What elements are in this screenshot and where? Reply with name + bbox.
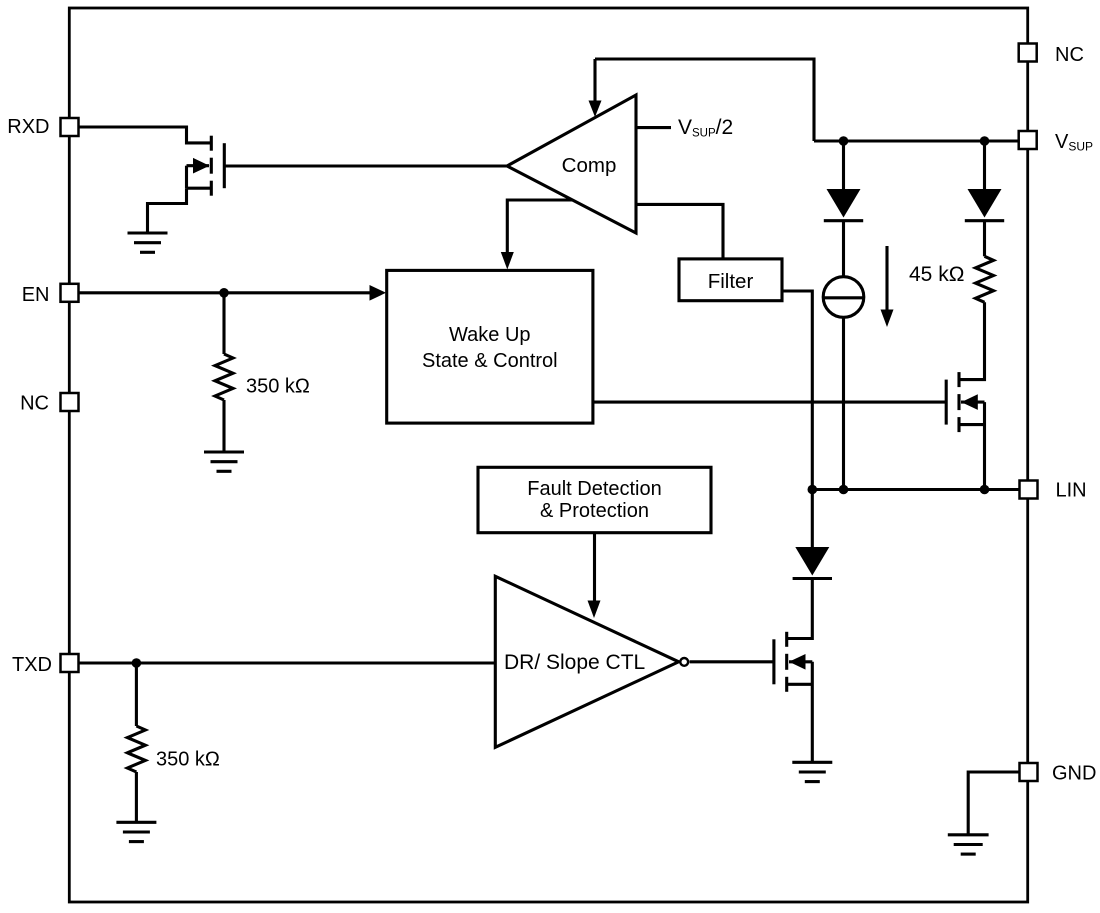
pin NC right (1019, 44, 1037, 62)
wire arrow into comparator input (593, 59, 596, 101)
pin TXD (61, 654, 79, 672)
transistor M2 (45k switch NMOS) (946, 372, 984, 432)
diode D1 (824, 189, 863, 221)
svg-text:350 kΩ: 350 kΩ (156, 749, 220, 771)
pin LIN (1020, 481, 1038, 499)
block Fault Detection & Protection (478, 467, 711, 532)
pin EN (61, 284, 79, 302)
pin GND (1020, 763, 1038, 781)
inversion bubble (680, 658, 688, 666)
pin NC left (61, 393, 79, 411)
junction on VSUP rail (839, 136, 849, 146)
wire VSUP rail (814, 139, 1020, 142)
wire comparator feedback from VSUP rail (595, 59, 814, 141)
wire D3 to M3 drain (787, 579, 813, 639)
wire LIN rail (812, 488, 1019, 491)
svg-text:State & Control: State & Control (422, 350, 558, 372)
svg-text:Wake Up: Wake Up (449, 324, 531, 346)
junction TXD node (132, 658, 142, 668)
wire comparator lower output to Wake Up block (507, 200, 572, 252)
svg-text:GND: GND (1052, 763, 1096, 785)
wire R3 to ground (135, 772, 138, 822)
wire EN to Wake Up block (79, 291, 371, 294)
svg-text:DR/ Slope CTL: DR/ Slope CTL (504, 651, 645, 674)
svg-text:LIN: LIN (1056, 480, 1087, 502)
svg-text:Filter: Filter (708, 270, 754, 293)
junction on LIN rail (839, 485, 849, 495)
resistor R45 45k (976, 256, 994, 302)
svg-text:NC: NC (20, 393, 49, 415)
svg-text:TXD: TXD (12, 654, 52, 676)
op-amp U1 Comp (507, 95, 636, 233)
wire driver output to M3 gate (690, 660, 774, 663)
wire M3 source to ground (811, 662, 814, 763)
diode D2 (965, 189, 1004, 221)
wire VSUP to diode D2 (983, 141, 986, 189)
wire VSUP to diode D1 (842, 141, 845, 189)
svg-text:VSUP: VSUP (1055, 131, 1093, 154)
wire Filter to LIN node (782, 291, 812, 490)
block Wake Up State & Control (387, 270, 593, 423)
junction on LIN rail (980, 485, 990, 495)
pin RXD (61, 118, 79, 136)
buffer U2 DR/Slope CTL (495, 576, 678, 747)
wire D1 to current source (842, 221, 845, 277)
wire VSUP/2 reference stub (636, 126, 671, 129)
wire D2 to resistor R45 (983, 221, 986, 257)
resistor R3 350k (127, 726, 145, 772)
diode D3 (793, 547, 832, 579)
svg-text:& Protection: & Protection (540, 500, 649, 522)
transistor M3 (LIN output NMOS) (774, 632, 812, 692)
svg-text:EN: EN (22, 284, 50, 306)
ground G3 (792, 762, 832, 781)
svg-text:Comp: Comp (562, 154, 617, 177)
junction EN node (219, 288, 229, 298)
svg-text:RXD: RXD (7, 116, 49, 138)
pin VSUP (1019, 131, 1037, 149)
ground G2 (204, 452, 244, 471)
transistor M1 (RXD pull-down NMOS) (187, 136, 225, 196)
wire M2 source to LIN rail (983, 402, 986, 489)
wire comparator output to M1 gate (224, 164, 507, 167)
wire TXD node to R3 (135, 663, 138, 726)
wire EN node to R2 (222, 293, 225, 354)
resistor R2 350k (215, 354, 233, 400)
wire RXD pin to M1 drain (79, 127, 212, 143)
ground G1 (128, 233, 168, 252)
svg-text:Fault Detection: Fault Detection (527, 478, 662, 500)
block Filter (679, 259, 782, 301)
ground G5 (948, 835, 989, 854)
svg-text:NC: NC (1055, 44, 1084, 66)
svg-text:350 kΩ: 350 kΩ (246, 376, 310, 398)
wire current source to LIN node (842, 317, 845, 489)
wire TXD to driver input (79, 661, 496, 664)
wire Fault block arrow to driver (593, 533, 596, 601)
current direction arrow (885, 246, 888, 310)
current source I1 (823, 277, 864, 318)
wire GND pin to ground (968, 772, 1019, 835)
svg-text:45 kΩ: 45 kΩ (909, 263, 964, 286)
wire LIN node to diode D3 (811, 490, 814, 548)
wire R45 to M2 drain (959, 302, 985, 379)
wire Wake Up to M2 gate (593, 401, 946, 404)
svg-text:VSUP/2: VSUP/2 (678, 116, 733, 140)
wire M1 source to ground (148, 188, 187, 233)
wire comparator output to Filter (636, 204, 723, 259)
junction on LIN rail (808, 485, 818, 495)
wire R2 to ground (222, 400, 225, 452)
junction on VSUP rail (980, 136, 990, 146)
ground G4 (116, 822, 156, 841)
